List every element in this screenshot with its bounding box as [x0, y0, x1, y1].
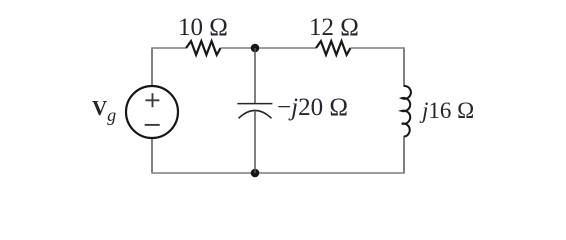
wire top-left horizontal segment — [151, 47, 186, 49]
wire bottom segment — [151, 172, 405, 174]
svg-text:12 Ω: 12 Ω — [309, 14, 359, 41]
node B junction dot — [251, 169, 260, 178]
wire left vertical upper segment — [151, 49, 153, 87]
resistor R2 12 ohm — [316, 41, 351, 55]
capacitor C1 bottom curved plate — [239, 110, 272, 118]
wire top-right horizontal segment — [351, 47, 405, 49]
wire right-bottom segment — [403, 137, 405, 174]
svg-text:Vg: Vg — [92, 96, 116, 125]
resistor R1 10 ohm — [186, 41, 221, 55]
svg-text:−j20 Ω: −j20 Ω — [277, 94, 348, 121]
wire right vertical upper segment — [403, 49, 405, 87]
plus sign inside source — [146, 93, 160, 107]
capacitor C1 top plate — [237, 103, 272, 105]
wire middle branch upper — [254, 48, 256, 104]
svg-text:j16 Ω: j16 Ω — [419, 98, 474, 123]
wire left-bottom segment — [151, 138, 153, 172]
wire middle branch lower — [254, 111, 256, 173]
node A junction dot — [251, 44, 260, 53]
svg-text:10 Ω: 10 Ω — [178, 14, 228, 41]
inductor L1 j16 ohm — [402, 86, 411, 137]
voltage source Vg circle — [126, 86, 178, 138]
wire between R1 and node A — [221, 47, 316, 49]
minus sign inside source — [145, 124, 160, 126]
